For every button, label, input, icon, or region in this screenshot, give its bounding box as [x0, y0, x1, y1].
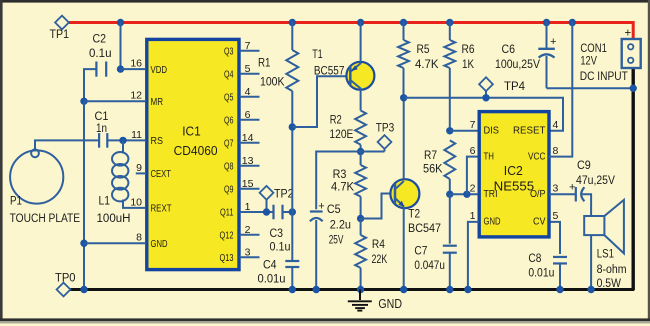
- svg-text:IC2: IC2: [504, 163, 523, 178]
- wire CON1 negative black: [632, 67, 635, 291]
- svg-text:8-ohm: 8-ohm: [597, 264, 627, 276]
- node VDD rail junction: [117, 19, 124, 26]
- wire VCC pin8: [549, 22, 572, 157]
- svg-text:VCC: VCC: [528, 151, 546, 162]
- wire Q11 pin1: [240, 211, 274, 213]
- wire T1 collector: [360, 88, 362, 110]
- svg-text:0.01u: 0.01u: [528, 266, 554, 280]
- svg-text:Q5: Q5: [224, 93, 234, 104]
- IC2 name label: [494, 163, 535, 194]
- svg-text:DIS: DIS: [484, 126, 500, 137]
- svg-text:R7: R7: [424, 148, 437, 162]
- svg-text:TP4: TP4: [504, 79, 525, 93]
- svg-text:16: 16: [130, 58, 142, 70]
- wire C2 to ground bus: [84, 69, 96, 101]
- resistor R6: [444, 22, 474, 131]
- svg-text:GND: GND: [151, 239, 168, 250]
- svg-text:+: +: [625, 28, 632, 40]
- svg-text:0.1u: 0.1u: [89, 46, 112, 60]
- node R6 DIS junction: [446, 127, 453, 134]
- wire TH jog: [467, 157, 479, 195]
- svg-text:6: 6: [245, 109, 251, 121]
- test point TP4: [479, 77, 525, 98]
- resistor R5: [398, 22, 438, 98]
- svg-text:C5: C5: [327, 202, 341, 216]
- svg-text:25V: 25V: [329, 233, 344, 247]
- svg-text:5: 5: [245, 63, 251, 75]
- wire O/P pin3: [549, 193, 576, 195]
- wire +12V red rail: [69, 23, 633, 41]
- wire IC1 pin9 CEXT stub: [136, 172, 146, 174]
- svg-text:47u,25V: 47u,25V: [576, 175, 615, 187]
- svg-text:RESET: RESET: [513, 126, 546, 137]
- svg-text:0.5W: 0.5W: [597, 278, 621, 290]
- svg-text:+: +: [569, 182, 575, 194]
- svg-text:+: +: [550, 36, 556, 48]
- svg-text:BC547: BC547: [408, 221, 441, 235]
- node C6 negative junction: [630, 85, 637, 92]
- svg-text:10: 10: [130, 196, 142, 208]
- svg-text:+: +: [318, 201, 324, 213]
- node C3 C4 R1: [289, 208, 296, 215]
- node R6 rail junction: [446, 19, 453, 26]
- svg-text:TP1: TP1: [50, 27, 70, 41]
- wire reset line: [404, 98, 563, 131]
- inductor L1: [97, 140, 147, 225]
- node left bus rail junction: [80, 286, 87, 293]
- test point TP2: [260, 186, 294, 212]
- svg-text:T2: T2: [408, 207, 420, 221]
- svg-text:LS1: LS1: [597, 247, 614, 261]
- svg-text:13: 13: [242, 155, 254, 167]
- svg-text:REXT: REXT: [151, 204, 172, 215]
- svg-text:4: 4: [245, 86, 251, 98]
- node C8 rail junction: [556, 286, 563, 293]
- connector CON1: [580, 28, 641, 84]
- svg-text:NE555: NE555: [494, 179, 535, 194]
- svg-text:C7: C7: [414, 244, 427, 258]
- svg-text:C6: C6: [502, 42, 516, 56]
- svg-text:C2: C2: [93, 32, 107, 46]
- svg-text:R4: R4: [372, 237, 385, 251]
- svg-text:R6: R6: [462, 42, 475, 56]
- svg-text:4.7K: 4.7K: [415, 57, 439, 71]
- svg-text:9: 9: [136, 162, 142, 174]
- node VDD: [117, 65, 124, 72]
- svg-text:T1: T1: [312, 47, 323, 61]
- capacitor C9: [569, 158, 615, 216]
- wire ground bottom rail: [70, 288, 635, 291]
- wire left ground bus: [83, 101, 85, 289]
- node R1 rail junction: [289, 19, 296, 26]
- svg-text:1K: 1K: [462, 57, 474, 71]
- svg-text:CV: CV: [533, 217, 546, 228]
- svg-text:8: 8: [553, 145, 559, 157]
- svg-text:5: 5: [553, 210, 559, 222]
- svg-text:TP3: TP3: [376, 121, 395, 135]
- svg-text:TRI: TRI: [484, 189, 498, 200]
- svg-text:IC1: IC1: [182, 123, 201, 138]
- svg-text:C3: C3: [270, 226, 284, 240]
- svg-text:1n: 1n: [96, 121, 107, 135]
- node T2 emitter rail: [400, 286, 407, 293]
- test point TP1: [50, 16, 70, 41]
- test point TP3: [361, 121, 395, 152]
- svg-text:2: 2: [470, 183, 476, 195]
- svg-text:12: 12: [130, 90, 142, 102]
- svg-text:Q13: Q13: [220, 253, 234, 264]
- svg-text:Q9: Q9: [224, 185, 234, 196]
- node R5 rail junction: [400, 19, 407, 26]
- IC2 right pin labels: [513, 119, 559, 228]
- svg-text:P1: P1: [10, 193, 22, 207]
- svg-text:3: 3: [245, 246, 251, 258]
- svg-text:Q8: Q8: [224, 162, 234, 173]
- svg-text:Q3: Q3: [224, 47, 234, 58]
- svg-text:4: 4: [553, 119, 559, 131]
- svg-text:12V: 12V: [580, 56, 597, 68]
- svg-text:VDD: VDD: [151, 65, 168, 76]
- transistor T1: [312, 47, 374, 90]
- svg-text:1: 1: [470, 210, 476, 222]
- svg-text:R2: R2: [330, 112, 342, 126]
- wire T2 emitter: [403, 207, 405, 290]
- wire C6 to negative: [547, 87, 634, 89]
- wire T2 collector: [403, 98, 405, 180]
- svg-text:Q11: Q11: [220, 208, 234, 219]
- wire C1 to RS: [107, 139, 146, 141]
- resistor R7: [423, 140, 455, 194]
- capacitor C6: [495, 22, 556, 89]
- node VCC rail junction: [569, 19, 576, 26]
- wire T1 base jog: [292, 76, 348, 127]
- touch plate P1: [10, 149, 81, 225]
- svg-text:2.2u: 2.2u: [330, 218, 351, 232]
- node RS junction: [119, 137, 126, 144]
- svg-text:100uH: 100uH: [97, 213, 131, 225]
- svg-text:TH: TH: [484, 151, 495, 162]
- svg-text:R5: R5: [417, 42, 430, 56]
- node TH jog junction: [463, 191, 470, 198]
- node R2 R3 junction: [357, 148, 364, 155]
- svg-text:DC INPUT: DC INPUT: [580, 71, 628, 83]
- svg-text:2: 2: [245, 224, 251, 236]
- svg-text:7: 7: [470, 119, 476, 131]
- wire VDD riser: [120, 22, 122, 70]
- svg-text:100K: 100K: [260, 75, 285, 89]
- svg-text:CON1: CON1: [580, 43, 607, 55]
- node C5 rail junction: [313, 286, 320, 293]
- IC1 right pins: [220, 40, 260, 264]
- test point TP0: [55, 271, 76, 297]
- node C6 rail junction: [543, 19, 550, 26]
- node R3 R4 junction: [357, 215, 364, 222]
- svg-text:0.01u: 0.01u: [258, 271, 286, 285]
- node IC2 GND rail junction: [464, 286, 471, 293]
- svg-text:6: 6: [470, 145, 476, 157]
- node TP4 junction: [482, 94, 489, 101]
- svg-text:Q12: Q12: [220, 231, 234, 242]
- capacitor C4: [258, 212, 300, 290]
- ground: [348, 290, 402, 312]
- node R7 TRI junction: [446, 191, 453, 198]
- node C7 rail junction: [446, 286, 453, 293]
- capacitor C7: [414, 194, 456, 289]
- svg-text:Q4: Q4: [224, 70, 234, 81]
- svg-text:4.7K: 4.7K: [331, 180, 354, 194]
- node GND pin8 junction: [80, 240, 87, 247]
- op IC2 box: [479, 112, 549, 237]
- capacitor C5: [310, 152, 361, 290]
- svg-text:MR: MR: [151, 97, 164, 108]
- wire MR pin12: [84, 100, 146, 102]
- svg-text:0.047u: 0.047u: [414, 258, 445, 272]
- svg-text:Q6: Q6: [224, 116, 234, 127]
- capacitor C2: [89, 32, 112, 77]
- IC2 left pin labels: [470, 119, 501, 228]
- IC1 name label: [174, 123, 218, 158]
- node T1 emitter rail: [357, 19, 364, 26]
- wire GND pin8: [84, 242, 146, 244]
- svg-text:8: 8: [136, 232, 142, 244]
- svg-text:RS: RS: [151, 136, 164, 147]
- wire TRI pin2: [450, 193, 479, 195]
- capacitor C1: [95, 109, 109, 148]
- wire DIS pin7: [450, 130, 479, 132]
- resistor R4: [355, 219, 387, 290]
- svg-text:R1: R1: [258, 56, 271, 70]
- wire GND pin1: [468, 222, 479, 290]
- wire T1 emitter: [360, 22, 362, 64]
- speaker LS1: [584, 200, 626, 290]
- svg-text:C4: C4: [263, 258, 277, 272]
- node MR junction: [80, 98, 87, 105]
- svg-text:3: 3: [553, 183, 559, 195]
- svg-text:TOUCH PLATE: TOUCH PLATE: [10, 213, 81, 225]
- capacitor C8: [528, 222, 567, 290]
- svg-text:11: 11: [131, 129, 142, 141]
- node TP2 junction: [263, 208, 270, 215]
- resistor R1: [258, 22, 298, 213]
- svg-text:C9: C9: [577, 158, 591, 172]
- svg-text:TP2: TP2: [274, 187, 294, 201]
- IC1 left pin labels: [130, 58, 171, 251]
- wire C3 to node: [283, 211, 293, 213]
- svg-text:56K: 56K: [423, 161, 443, 175]
- svg-text:BC557: BC557: [314, 63, 345, 77]
- svg-text:7: 7: [245, 40, 251, 52]
- svg-text:Q7: Q7: [224, 139, 234, 150]
- svg-text:15: 15: [242, 178, 254, 190]
- node R4 rail junction: [357, 286, 364, 293]
- svg-text:CD4060: CD4060: [174, 143, 218, 158]
- svg-text:14: 14: [242, 132, 254, 144]
- svg-text:22K: 22K: [372, 252, 388, 266]
- node T1 base junction: [289, 123, 296, 130]
- svg-text:0.1u: 0.1u: [270, 240, 291, 254]
- resistor R2: [329, 111, 366, 152]
- svg-text:GND: GND: [378, 296, 402, 311]
- capacitor C3: [270, 205, 291, 254]
- svg-text:L1: L1: [99, 193, 111, 207]
- transistor T2: [390, 179, 441, 235]
- resistor R3: [331, 152, 366, 219]
- wire T2 base jog: [361, 194, 394, 219]
- wire touch plate to C1: [35, 140, 99, 149]
- svg-text:CEXT: CEXT: [151, 169, 172, 180]
- op IC1 box: [147, 39, 239, 269]
- wire VDD pin16: [121, 68, 147, 70]
- node LS1 rail junction: [587, 286, 594, 293]
- node R5 T2 junction: [400, 94, 407, 101]
- svg-text:TP0: TP0: [55, 271, 76, 285]
- svg-text:120E: 120E: [329, 127, 353, 141]
- svg-text:C8: C8: [528, 251, 541, 265]
- svg-text:O/P: O/P: [530, 189, 546, 200]
- node C4 rail junction: [289, 286, 296, 293]
- svg-text:100u,25V: 100u,25V: [495, 59, 540, 71]
- svg-text:GND: GND: [484, 217, 501, 228]
